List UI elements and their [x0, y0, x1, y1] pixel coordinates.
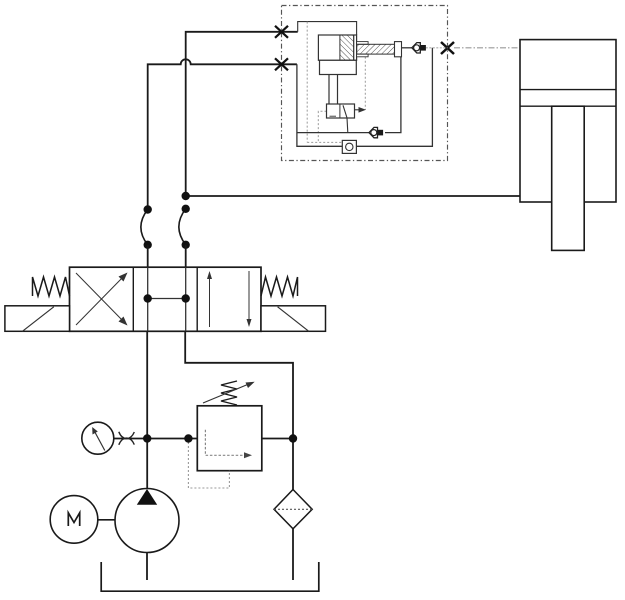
hose right (flexible line) [179, 209, 186, 245]
check valve CV1 (poppet with seat) [412, 43, 426, 53]
wire from cap to check valve CV1 [402, 47, 413, 49]
wire from check valve CV2 up to rod end cap [385, 57, 401, 133]
rod end cap [395, 42, 402, 57]
piston rod upper tab [357, 42, 369, 45]
pressure gauge [82, 422, 114, 454]
wire: rod side line from junction to cylinder [186, 195, 520, 197]
piston rod (hatched) [357, 44, 395, 54]
hose left (flexible line) [141, 210, 148, 245]
plugged port X1 on enclosure left edge (upper) [275, 26, 288, 38]
plugged port X2 on enclosure left edge (lower) [275, 58, 288, 70]
orifice line to right side riser [356, 48, 432, 147]
wire: B line into valve [185, 245, 187, 267]
junction dot at rod-side branch [182, 192, 190, 200]
enclosure dashed boundary (pilot operated check valve assembly) [282, 6, 448, 161]
plugged port X3 on enclosure right edge [441, 42, 454, 54]
right solenoid [261, 306, 326, 332]
valve centre position: lines through with dots [144, 267, 190, 331]
gauge orifice symbol [119, 432, 135, 445]
left solenoid [5, 306, 70, 332]
piston rod lower tab [357, 54, 369, 57]
cylinder piston [520, 90, 616, 107]
relief valve outlet line [262, 438, 293, 440]
hydraulic cylinder barrel [520, 40, 616, 202]
pump suction line [146, 553, 148, 581]
directional control valve 4/3 body [70, 267, 262, 331]
check valve CV2 (poppet with seat) [369, 127, 383, 137]
wire CV1 to port X3 (light) [426, 47, 448, 49]
right return spring [261, 277, 298, 296]
wire: A line into valve [147, 245, 149, 267]
junction dot return [289, 434, 297, 442]
relief valve body [197, 406, 261, 471]
pilot line from rod chamber to control valve right port [364, 57, 366, 110]
piston block of cartridge [318, 35, 356, 60]
relief valve adjustable spring [203, 381, 255, 405]
wire B: lower line from valve port B up and right to enclosure port (with crossover hop) [148, 59, 297, 209]
cartridge lower body [320, 60, 357, 74]
pilot supply line to cylinder (dash-dot) [454, 47, 520, 49]
internal drain line horizontal [307, 141, 342, 143]
wire: P line below valve to pump [146, 331, 148, 488]
motor [50, 496, 98, 544]
pilot branch to control valve left port [318, 111, 326, 142]
filter to tank line [292, 529, 294, 580]
left return spring [33, 277, 70, 296]
relief valve pilot line (dotted) [188, 442, 229, 488]
relief valve internal flow path [205, 430, 252, 459]
control valve right port arrow [355, 107, 367, 113]
fixed orifice (circle in square) [342, 140, 356, 153]
internal drain line (grey dotted vertical) [306, 22, 308, 143]
wire A: upper line from valve port A up and right to enclosure port [186, 32, 298, 196]
cartridge stem [329, 75, 338, 105]
gauge connection line [114, 438, 198, 440]
internal control valve (2/2) [327, 104, 355, 133]
motor-pump shaft [98, 519, 115, 521]
junction dot P line [143, 434, 151, 442]
wire: check valve branch line [297, 132, 370, 134]
valve left position crossed arrows [76, 273, 128, 326]
junction dot pilot tap [184, 434, 192, 442]
valve right position parallel arrows [207, 271, 252, 327]
tank [101, 562, 319, 591]
wire: T line below valve to return junction [185, 331, 293, 489]
pump [115, 489, 179, 553]
wire from port X2 down to orifice line [297, 64, 342, 146]
return filter [274, 490, 312, 529]
cartridge body outline top [298, 22, 357, 35]
cylinder rod [552, 106, 585, 250]
